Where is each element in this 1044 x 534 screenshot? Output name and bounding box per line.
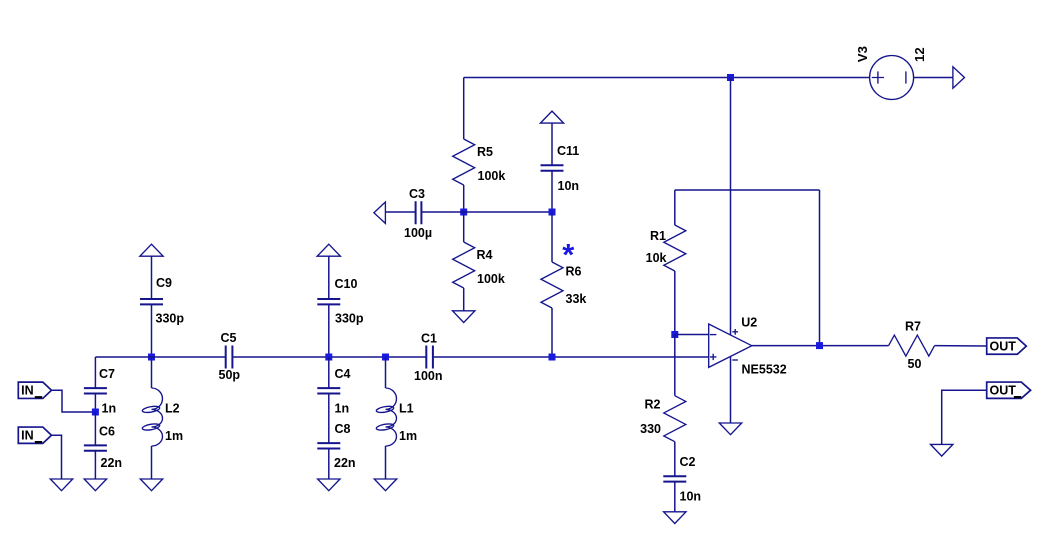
svg-text:NE5532: NE5532	[742, 362, 787, 376]
capacitor C8	[317, 422, 355, 470]
ground under L2	[140, 479, 162, 491]
ground under OUT_ wire	[931, 444, 953, 456]
capacitor C6	[84, 425, 122, 470]
wire bus to L2 top	[151, 357, 153, 388]
svg-text:R5: R5	[477, 145, 493, 159]
svg-text:C7: C7	[99, 367, 115, 381]
wire op-amp output to R7	[752, 345, 889, 347]
svg-text:C2: C2	[680, 455, 696, 469]
flipped ground above C11	[540, 111, 563, 123]
wire R7 to OUT port	[935, 345, 987, 347]
wire bus segment 3	[433, 356, 708, 358]
wire IN upper to node C7/C6	[52, 390, 96, 412]
port IN (upper)	[18, 382, 51, 398]
svg-text:C5: C5	[221, 331, 237, 345]
wire L2 bottom to ground	[151, 446, 153, 479]
svg-text:10n: 10n	[558, 179, 580, 193]
wire node to R2 top	[674, 335, 676, 396]
flipped ground above C9	[140, 244, 163, 256]
svg-text:10n: 10n	[680, 490, 702, 504]
node top rail / op-amp V+ junction	[727, 74, 734, 81]
svg-text:22n: 22n	[334, 456, 356, 470]
wire V3 to flipped ground	[914, 77, 953, 79]
ground under C8	[318, 479, 340, 491]
capacitor C7	[84, 367, 116, 416]
svg-text:L1: L1	[399, 402, 414, 416]
wire C8 bottom to ground	[328, 449, 330, 480]
svg-text:1m: 1m	[399, 429, 417, 443]
wire rail to R5 top	[463, 78, 465, 140]
svg-text:100µ: 100µ	[404, 226, 432, 240]
ground under L1	[374, 479, 396, 491]
wire C10 top lead	[328, 256, 330, 299]
svg-text:22n: 22n	[101, 456, 123, 470]
wire C11 bottom to node	[551, 171, 553, 212]
flipped ground left of C3	[374, 202, 386, 223]
svg-text:IN: IN	[21, 428, 33, 442]
capacitor C1	[414, 332, 443, 384]
svg-text:R6: R6	[566, 264, 582, 278]
wire bus to C7 top	[94, 357, 96, 388]
svg-text:L2: L2	[165, 402, 180, 416]
resistor R4	[453, 242, 505, 288]
flipped ground right of V3	[953, 67, 965, 88]
svg-text:100n: 100n	[414, 369, 443, 383]
svg-text:330p: 330p	[335, 312, 364, 326]
svg-text:R7: R7	[905, 319, 921, 333]
svg-text:R4: R4	[477, 248, 493, 262]
wire L1 bottom to ground	[385, 446, 387, 479]
wire node to R6 top	[551, 212, 553, 262]
capacitor C5	[219, 331, 241, 382]
svg-text:1n: 1n	[102, 402, 117, 416]
node bus/C10/C4 junction	[325, 354, 332, 361]
svg-text:330: 330	[640, 422, 661, 436]
svg-text:U2: U2	[741, 315, 757, 329]
node R1/R2 inverting input junction	[671, 331, 678, 338]
resistor R1	[646, 225, 686, 271]
wire feedback top	[675, 189, 820, 191]
svg-text:C1: C1	[421, 332, 437, 346]
svg-text:C8: C8	[335, 422, 351, 436]
svg-text:50: 50	[908, 357, 922, 371]
node bus/L1 junction	[382, 354, 389, 361]
wire top supply rail	[464, 77, 870, 79]
wire bus segment 2	[233, 356, 426, 358]
wire C11 top lead	[551, 123, 553, 165]
wire R1 bottom to inverting node	[674, 271, 676, 335]
ground under C6	[84, 479, 106, 491]
svg-text:R2: R2	[645, 398, 661, 412]
svg-text:12: 12	[912, 47, 927, 62]
svg-text:OUT: OUT	[990, 383, 1017, 397]
svg-text:R1: R1	[650, 229, 666, 243]
ground under R4	[453, 311, 475, 323]
svg-text:33k: 33k	[566, 292, 587, 306]
inductor L1	[376, 388, 417, 446]
wire C6 bottom to ground	[94, 451, 96, 479]
svg-text:C6: C6	[99, 425, 115, 439]
wire R4 bottom to ground	[463, 288, 465, 311]
port IN (lower)	[18, 427, 51, 443]
capacitor C11	[541, 144, 580, 193]
wire inverting node to op-amp	[675, 334, 709, 336]
svg-text:V3: V3	[855, 46, 870, 62]
svg-text:1m: 1m	[165, 429, 183, 443]
wire C9 top lead	[151, 256, 153, 299]
svg-text:10k: 10k	[646, 251, 667, 265]
node bus/C9/L2 junction	[148, 354, 155, 361]
node C11/R6 junction	[549, 209, 556, 216]
wire node to R4 top	[463, 212, 465, 242]
capacitor C2	[663, 455, 701, 504]
svg-text:C4: C4	[335, 367, 351, 381]
capacitor C9	[140, 276, 184, 325]
capacitor C4	[317, 367, 350, 416]
node C7/C6/IN junction	[92, 409, 99, 416]
svg-text:OUT: OUT	[990, 339, 1017, 353]
wire mid rail C3 node to R6 node	[464, 211, 552, 213]
capacitor C10	[317, 277, 364, 326]
ground under IN lower	[50, 479, 72, 491]
wire C2 bottom to ground	[674, 482, 676, 512]
resistor R6	[541, 262, 586, 308]
voltage source V3	[855, 46, 927, 99]
wire op-amp V+ from rail	[730, 78, 732, 335]
wire feedback to R1 top	[674, 190, 676, 225]
wire bus to L1 top	[385, 357, 387, 388]
resistor R2	[640, 396, 686, 442]
wire C9 bottom to bus	[151, 304, 153, 357]
node output/feedback junction	[816, 342, 823, 349]
wire node to C6 top	[94, 412, 96, 445]
node R5/R4/C3 junction	[460, 209, 467, 216]
svg-text:330p: 330p	[156, 312, 185, 326]
svg-text:C3: C3	[409, 187, 425, 201]
wire op-amp V- to ground	[730, 357, 732, 423]
svg-text:C9: C9	[156, 276, 172, 290]
op-amp U2 NE5532	[709, 315, 787, 376]
svg-text:100k: 100k	[477, 272, 505, 286]
resistor R7	[889, 319, 935, 371]
resistor R5	[453, 139, 506, 185]
svg-text:50p: 50p	[219, 368, 241, 382]
wire feedback down to output	[819, 190, 821, 346]
wire OUT_ port to ground	[942, 390, 987, 444]
wire bus segment 1	[95, 356, 225, 358]
wire C10 bottom to bus	[328, 304, 330, 357]
node bus/R6/C1 junction	[549, 354, 556, 361]
wire IN lower to ground	[52, 435, 62, 479]
svg-text:1n: 1n	[335, 402, 350, 416]
wire C4 bottom to C8 top	[328, 394, 330, 444]
wire R6 bottom to bus	[551, 308, 553, 357]
flipped ground above C10	[317, 244, 340, 256]
svg-text:IN: IN	[21, 384, 33, 398]
inductor L2	[142, 388, 183, 446]
capacitor C3	[404, 187, 432, 240]
ground under C2	[664, 512, 686, 524]
port OUT	[987, 338, 1027, 354]
wire R5 bottom to node	[463, 185, 465, 212]
port OUT_ (inverted output)	[987, 382, 1031, 398]
wire C7 bottom to node	[94, 394, 96, 413]
wire C3 right plate to node	[422, 211, 464, 213]
ground under op-amp V-	[719, 423, 741, 435]
svg-text:100k: 100k	[478, 169, 506, 183]
wire R2 bottom to C2 top	[674, 442, 676, 476]
svg-text:C10: C10	[335, 277, 358, 291]
svg-text:C11: C11	[557, 144, 579, 158]
wire bus to C4 top	[328, 357, 330, 388]
wire ground to C3 left plate	[385, 211, 415, 213]
